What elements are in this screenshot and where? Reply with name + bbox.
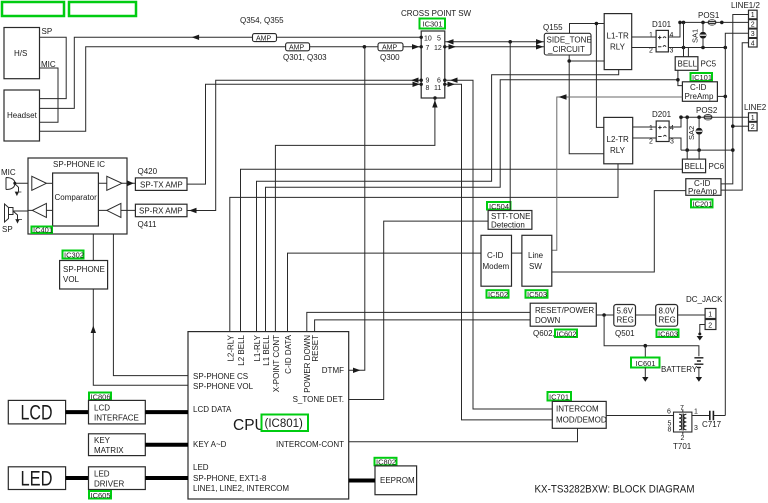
svg-text:LINE2: LINE2 (744, 103, 767, 112)
wire D201 pin 3 to lower rail (669, 138, 681, 150)
svg-text:SP-PHONE CS: SP-PHONE CS (193, 372, 248, 381)
IC605 label (89, 491, 111, 500)
svg-text:DC_JACK: DC_JACK (686, 295, 723, 304)
wire reset to regulators (596, 314, 614, 316)
wire 5.6V to 8.0V (636, 314, 656, 316)
header green box 2 (69, 2, 136, 16)
svg-text:CROSS POINT SW: CROSS POINT SW (401, 9, 472, 18)
svg-text:DTMF: DTMF (322, 366, 344, 375)
svg-text:9: 9 (426, 78, 430, 85)
LED box (8, 467, 65, 491)
svg-text:L1-TR: L1-TR (607, 32, 629, 41)
IC601 label (631, 358, 660, 369)
IC503 label (526, 290, 548, 299)
SP-PHONE VOL box (60, 261, 108, 290)
svg-text:6: 6 (437, 78, 441, 85)
wire L1-TR to D101 pin 2 (632, 47, 656, 49)
wire X-POINT CONT from CPU to IC301 (275, 98, 435, 332)
svg-text:1: 1 (649, 125, 653, 132)
junction preamp line (724, 95, 728, 99)
opto BELL PC5 box (675, 57, 716, 71)
svg-text:BELL: BELL (678, 60, 698, 69)
svg-text:IC605: IC605 (91, 491, 111, 500)
wire DC jack pin 2 to ground (700, 325, 705, 335)
svg-text:SA2: SA2 (687, 126, 696, 140)
svg-text:_CIRCUIT: _CIRCUIT (547, 45, 585, 54)
regulator 8.0V REG box (656, 305, 678, 327)
svg-text:SW: SW (529, 262, 542, 271)
svg-text:Headset: Headset (7, 111, 38, 120)
amplifier AMP Q300 (378, 43, 403, 62)
IC701 label (548, 392, 572, 402)
svg-text:2: 2 (708, 322, 712, 329)
IC802 label (375, 458, 397, 467)
svg-text:C-ID DATA: C-ID DATA (284, 334, 293, 373)
wire SP-PHONE VOL from CPU (93, 234, 188, 385)
svg-text:5.6V: 5.6V (617, 307, 634, 316)
wire L1-TR to D101 pin 1 (632, 36, 656, 38)
wire pin 6 to intercom (445, 80, 553, 409)
svg-text:KX-TS3282BXW: BLOCK DIAGRAM: KX-TS3282BXW: BLOCK DIAGRAM (535, 484, 695, 496)
ground IC601 (642, 377, 648, 382)
svg-text:X-POINT CONT: X-POINT CONT (272, 335, 281, 392)
wire rail to BELL PC5 (684, 22, 689, 56)
IC401 label (32, 226, 54, 235)
thick wire LED (145, 476, 188, 480)
Headset box (4, 90, 40, 141)
junction on relay wire (595, 22, 599, 26)
arrow into side tone upper (536, 39, 544, 44)
svg-text:BELL: BELL (685, 162, 705, 171)
wire D101 pin 4 to line rail (668, 22, 680, 37)
arrow on pin 6 wire (450, 78, 458, 83)
svg-text:REG: REG (659, 316, 676, 325)
op-amp triangle mic input (32, 176, 47, 190)
svg-text:LCD: LCD (94, 404, 110, 413)
svg-text:Q354, Q355: Q354, Q355 (240, 16, 284, 25)
svg-text:PreAmp: PreAmp (685, 92, 714, 101)
wire rails to BELL PC6 (687, 117, 699, 159)
arrow into pin 9 (413, 82, 421, 87)
svg-text:RLY: RLY (610, 146, 626, 155)
wire L1-RLY to L1-TR RLY (257, 70, 619, 332)
wire L2 BELL to BELL PC6 (241, 169, 683, 331)
svg-text:KEY: KEY (94, 436, 111, 445)
svg-text:C717: C717 (702, 420, 722, 429)
IC806 label (89, 392, 111, 401)
svg-text:KEY A~D: KEY A~D (193, 440, 227, 449)
LINE2 connector (744, 103, 767, 131)
wire IC201 preamp to line SW (552, 191, 686, 272)
wire RESET (315, 320, 531, 332)
amplifier AMP Q354 Q355 (240, 16, 284, 42)
IC502 label (487, 290, 509, 299)
wire C-ID DATA to C-ID modem (288, 253, 482, 332)
amplifier SP-RX AMP box (135, 204, 187, 217)
svg-text:L2-TR: L2-TR (607, 135, 629, 144)
wire mic amp to comparator (46, 182, 52, 184)
svg-text:8: 8 (426, 85, 430, 92)
svg-text:4: 4 (670, 125, 674, 132)
svg-text:1: 1 (708, 311, 712, 318)
svg-text:2: 2 (649, 48, 653, 55)
svg-text:MIC: MIC (1, 168, 16, 177)
svg-text:SA1: SA1 (691, 29, 700, 43)
svg-text:IC504: IC504 (489, 202, 509, 211)
svg-text:SP-PHONE, EXT1-8: SP-PHONE, EXT1-8 (193, 474, 267, 483)
comparator box (53, 173, 99, 226)
wire headset SP to IC301 pin 10 (40, 37, 422, 108)
svg-text:1: 1 (649, 32, 653, 39)
svg-text:7: 7 (426, 45, 430, 52)
IC602 label (555, 329, 577, 338)
svg-text:DOWN: DOWN (535, 316, 561, 325)
IC801 label (262, 415, 309, 432)
svg-text:REG: REG (617, 316, 634, 325)
wire D201 pin 4 to line2 rail (669, 117, 681, 127)
svg-text:3: 3 (670, 48, 674, 55)
wire S_TONE DET from CPU to STT-TONE (349, 221, 488, 399)
svg-text:Q602,: Q602, (533, 329, 555, 338)
wire pin 11 to intercom (445, 84, 553, 420)
C-ID PreAmp IC101 box (682, 82, 717, 102)
LINE1/2 connector (731, 1, 760, 47)
svg-text:D201: D201 (652, 110, 672, 119)
junction on side tone wire (508, 40, 512, 44)
wire side tone bottom to relays (569, 55, 604, 154)
wire preamp right to line (717, 95, 725, 97)
op-amp triangle tx output (107, 176, 122, 190)
arrow out of SP-PHONE IC tx (127, 180, 134, 186)
amplifier SP-TX AMP box (135, 178, 187, 191)
capacitor C717 (702, 411, 722, 429)
DC_JACK connector (686, 295, 723, 330)
junction IC601 (644, 344, 648, 348)
svg-text:L1-RLY: L1-RLY (253, 334, 262, 361)
arrow on pin 11 wire (448, 82, 456, 87)
wire LINE pin 1 down right side (721, 15, 749, 184)
IC301 label (420, 19, 446, 29)
svg-text:3: 3 (751, 31, 755, 38)
L1 tip rail (680, 21, 749, 23)
svg-text:SP-PHONE: SP-PHONE (63, 265, 105, 274)
header green box 1 (2, 2, 64, 16)
svg-text:L2 BELL: L2 BELL (237, 334, 246, 365)
svg-text:2: 2 (649, 139, 653, 146)
diode bridge D201 (649, 110, 674, 146)
svg-text:IC401: IC401 (33, 226, 53, 235)
surge absorber SA2 (687, 117, 702, 150)
svg-text:Q501: Q501 (615, 329, 635, 338)
svg-text:D101: D101 (652, 20, 672, 29)
wire comparator to tx amp (98, 182, 135, 184)
svg-text:4: 4 (670, 32, 674, 39)
svg-text:SP-PHONE IC: SP-PHONE IC (53, 160, 105, 169)
L2 ring rail (681, 149, 733, 151)
diode bridge D101 (649, 20, 674, 55)
svg-text:8.0V: 8.0V (659, 307, 676, 316)
wire C717 to line (713, 415, 725, 417)
svg-text:INTERFACE: INTERFACE (94, 414, 139, 423)
svg-text:Line: Line (528, 251, 544, 260)
svg-text:Q300: Q300 (380, 53, 400, 62)
wire SP-TX AMP to IC301 pin 9 (187, 84, 421, 184)
wire IC601 to ground (644, 368, 646, 378)
svg-text:S_TONE DET.: S_TONE DET. (293, 395, 344, 404)
svg-text:EEPROM: EEPROM (380, 476, 415, 485)
ground battery (696, 377, 702, 382)
IC302 label (63, 251, 85, 260)
wire modem to line SW (512, 252, 522, 254)
wire T701 to C717 (692, 415, 710, 417)
svg-text:C-ID: C-ID (690, 83, 707, 92)
power rail to battery (604, 315, 699, 356)
svg-text:Detection: Detection (491, 221, 525, 230)
junction line2 pin2 (731, 124, 735, 128)
relay L2-TR RLY box (604, 117, 633, 163)
svg-text:Modem: Modem (483, 262, 510, 271)
cross point switch IC301 box (421, 31, 445, 98)
KEY MATRIX box (89, 434, 146, 456)
svg-text:VOL: VOL (63, 275, 80, 284)
op-amp triangle rx input (107, 203, 121, 217)
speaker SP symbol (2, 204, 28, 234)
wire L1 BELL to BELL PC5 (266, 80, 678, 332)
wire L2-RLY to L2-TR RLY (230, 164, 618, 332)
svg-text:AMP: AMP (382, 45, 398, 52)
svg-text:Q301, Q303: Q301, Q303 (283, 53, 327, 62)
svg-text:RLY: RLY (610, 43, 626, 52)
svg-text:SP: SP (42, 27, 53, 36)
wire H/S SP to headset (40, 37, 67, 98)
svg-text:C-ID: C-ID (487, 251, 504, 260)
svg-text:MOD/DEMOD: MOD/DEMOD (556, 416, 607, 425)
LCD INTERFACE box (89, 400, 146, 424)
amplifier AMP Q301 Q303 (283, 43, 327, 62)
wire H/S MIC to headset (40, 68, 59, 122)
svg-text:MATRIX: MATRIX (94, 446, 124, 455)
SIDE_TONE CIRCUIT box (544, 33, 591, 55)
svg-text:PC5: PC5 (701, 60, 717, 69)
wire pin 5 from side tone (445, 41, 545, 43)
wire pin 12 to side tone (445, 46, 545, 48)
junction dots L2 rails (679, 115, 734, 152)
svg-text:IC601: IC601 (636, 359, 656, 368)
junction power node (602, 313, 606, 317)
pin dots IC301 (420, 36, 447, 100)
wire side tone top to relays (570, 24, 605, 128)
svg-text:10: 10 (424, 36, 432, 43)
C-ID Modem IC502 box (481, 235, 512, 286)
svg-text:4: 4 (751, 40, 755, 47)
arrow left on SP wire (192, 35, 200, 40)
svg-text:L2-RLY: L2-RLY (227, 334, 236, 361)
fuse POS2 (696, 106, 718, 120)
IC504 label (487, 202, 511, 211)
svg-text:POS1: POS1 (698, 11, 720, 20)
svg-text:12: 12 (434, 45, 442, 52)
svg-text:LED: LED (21, 468, 53, 491)
thick wire LED to driver (66, 476, 89, 480)
svg-text:IC301: IC301 (423, 20, 443, 29)
CPU pin labels rotated (227, 334, 321, 392)
wire LINE pin 3 down to C717 (725, 33, 748, 415)
svg-text:IC502: IC502 (488, 290, 508, 299)
svg-text:SIDE_TONE: SIDE_TONE (547, 36, 592, 45)
relay L1-TR RLY box (604, 14, 632, 70)
CPU IC801 box (188, 332, 349, 499)
arrow into SP-RX AMP (189, 208, 197, 213)
microphone MIC symbol (1, 168, 28, 195)
wire C-ID preamp to line SW (552, 97, 683, 250)
transformer T701 (667, 405, 698, 451)
svg-text:1: 1 (694, 409, 698, 416)
svg-text:3: 3 (670, 139, 674, 146)
svg-text:PC6: PC6 (709, 162, 725, 171)
H/S box (4, 28, 40, 79)
wire headset MIC to IC301 pin 7 (40, 47, 422, 131)
svg-text:(IC801): (IC801) (265, 418, 304, 430)
surge absorber SA1 (691, 22, 707, 47)
svg-text:POS2: POS2 (696, 106, 718, 115)
svg-text:BATTERY: BATTERY (661, 365, 698, 374)
svg-text:2: 2 (681, 435, 685, 442)
RESET/POWER DOWN box (530, 303, 596, 326)
svg-text:IC602: IC602 (557, 329, 577, 338)
junction on side tone bottom (567, 59, 571, 63)
op-amp triangle rx to speaker (32, 203, 46, 217)
wire rail to IC601 (644, 346, 646, 358)
svg-text:LINE1, LINE2, INTERCOM: LINE1, LINE2, INTERCOM (193, 484, 289, 493)
svg-text:H/S: H/S (14, 49, 27, 58)
svg-text:LCD DATA: LCD DATA (193, 405, 232, 414)
svg-text:L1 BELL: L1 BELL (262, 334, 271, 365)
svg-text:6: 6 (667, 409, 671, 416)
opto BELL PC6 box (682, 159, 724, 173)
IC201 label (691, 199, 713, 208)
svg-text:SP-TX AMP: SP-TX AMP (140, 180, 183, 189)
wire LINE pin 4 down to IC201 (721, 43, 749, 190)
svg-text:5: 5 (437, 36, 441, 43)
SP-PHONE IC U401 box (28, 158, 127, 234)
svg-text:SP-RX AMP: SP-RX AMP (139, 207, 183, 216)
junction DTMF on line wire (363, 45, 367, 49)
svg-text:IC701: IC701 (549, 393, 569, 402)
ground DC jack (697, 333, 703, 341)
wire IC301 pin 8 to SP-RX AMP (187, 80, 421, 210)
arrow out of pin 12 (449, 44, 457, 49)
svg-text:RESET: RESET (311, 335, 320, 362)
C-ID PreAmp IC201 box (686, 179, 721, 196)
arrow right on DTMF wire (353, 368, 361, 373)
IC603 label (657, 329, 679, 338)
svg-text:LINE1/2: LINE1/2 (731, 1, 760, 10)
thick wire CPU to EEPROM (349, 479, 375, 483)
EEPROM box (375, 466, 417, 495)
thick wire LCD to interface (66, 410, 89, 414)
wire DTMF from CPU to line (349, 47, 365, 371)
svg-text:Q420: Q420 (138, 167, 158, 176)
svg-text:DRIVER: DRIVER (94, 480, 124, 489)
LED DRIVER box (89, 467, 146, 490)
wire BELL PC5 to preamp (678, 70, 683, 85)
wire INTERCOM-CONT (349, 428, 578, 442)
svg-text:Q411: Q411 (138, 220, 158, 229)
STT-TONE Detection box (488, 211, 532, 230)
wire L2-TR to D201 pin 1 (633, 126, 657, 128)
svg-text:LED: LED (193, 463, 209, 472)
svg-text:3: 3 (694, 425, 698, 432)
svg-text:IC503: IC503 (527, 290, 547, 299)
svg-text:PreAmp: PreAmp (688, 187, 717, 196)
wire 8.0V to DC jack (678, 314, 706, 316)
wire STT-TONE to side tone line (509, 42, 511, 211)
svg-text:LED: LED (94, 470, 110, 479)
svg-text:IC603: IC603 (658, 329, 678, 338)
svg-text:2: 2 (751, 124, 755, 131)
arrow at pin 8 (411, 78, 419, 83)
arrow up into IC301 bottom (432, 100, 437, 108)
wire LINE2 pin 2 (733, 125, 749, 127)
wire POWER DOWN (307, 312, 530, 331)
svg-text:T701: T701 (673, 442, 692, 451)
svg-text:LCD: LCD (21, 402, 53, 425)
arrow into pin 5 (446, 39, 454, 44)
svg-text:AMP: AMP (256, 35, 272, 42)
svg-text:SP: SP (2, 225, 13, 234)
svg-text:Q155: Q155 (543, 23, 563, 32)
svg-text:7: 7 (680, 405, 684, 412)
svg-text:RESET/POWER: RESET/POWER (535, 306, 594, 315)
arrow into side tone lower (536, 44, 544, 49)
svg-text:AMP: AMP (289, 45, 305, 52)
wire intercom to T701 (606, 415, 673, 417)
Line SW IC503 box (522, 235, 552, 286)
svg-text:IC302: IC302 (64, 251, 84, 260)
svg-text:IC802: IC802 (376, 458, 396, 467)
fuse POS1 (698, 11, 720, 26)
svg-text:1: 1 (751, 12, 755, 19)
svg-text:INTERCOM-CONT: INTERCOM-CONT (276, 440, 344, 449)
arrow up on vol wire (91, 326, 96, 334)
svg-text:2: 2 (751, 22, 755, 29)
svg-text:IC201: IC201 (693, 199, 713, 208)
IC101 label (691, 73, 713, 82)
L2 tip rail (681, 116, 749, 118)
junction on bell wire (676, 78, 680, 82)
thick wire KEY A-D (145, 443, 188, 447)
battery BATTERY (661, 358, 703, 377)
svg-text:1: 1 (751, 115, 755, 122)
thick wire LCD DATA (145, 410, 188, 414)
svg-text:SP-PHONE VOL: SP-PHONE VOL (193, 382, 254, 391)
junction dots L1 rails (678, 21, 727, 50)
svg-text:11: 11 (434, 85, 441, 92)
wire L2-TR to D201 pin 2 (633, 137, 657, 139)
wire rx chain (28, 209, 135, 211)
svg-text:IC101: IC101 (692, 73, 712, 82)
INTERCOM MOD/DEMOD box (552, 401, 607, 428)
svg-text:Comparator: Comparator (55, 193, 98, 202)
regulator 5.6V REG box (614, 305, 636, 327)
L1 ring rail (668, 47, 725, 49)
svg-text:8: 8 (668, 427, 672, 434)
wire SP-PHONE CS from CPU (113, 234, 188, 376)
arrow into pin 7 (412, 44, 420, 49)
arrow left into wire (559, 94, 567, 100)
LCD box (8, 400, 65, 424)
svg-text:INTERCOM: INTERCOM (556, 405, 599, 414)
